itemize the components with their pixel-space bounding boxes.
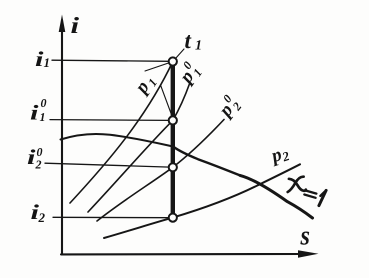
glyph = bar 1 [305, 190, 316, 193]
y axis arrowhead [59, 15, 66, 33]
glyph = bar 2 [304, 195, 315, 198]
svg-text:1: 1 [195, 39, 202, 54]
label i1 [35, 47, 44, 71]
label s (axis) [299, 220, 310, 251]
label i2-0 [27, 145, 36, 169]
svg-text:i: i [35, 47, 44, 71]
x axis arrowhead [298, 250, 319, 258]
glyph x stroke 2 [288, 177, 304, 192]
isobar p1 [70, 62, 173, 204]
glyph 1 stem [319, 190, 326, 205]
svg-text:1: 1 [40, 110, 46, 124]
saturation curve x=1 middle part [173, 147, 240, 176]
leader line t1 to point 1 [145, 49, 184, 71]
node 2 [169, 116, 177, 124]
svg-text:0: 0 [41, 96, 47, 110]
label x=1 drawn as strokes [288, 177, 326, 206]
node 1 [169, 57, 177, 65]
node 4 [169, 214, 177, 222]
label p2 [267, 142, 292, 168]
leader line near p1 to point 2 [161, 85, 173, 116]
saturation curve x=1 right thick part [240, 175, 313, 218]
x axis [61, 253, 302, 255]
saturation curve x=1 left part [61, 134, 174, 147]
isobar p2-0 [97, 120, 224, 222]
guide line i1 [52, 60, 170, 61]
y axis [61, 20, 63, 254]
isobar p1-0 [88, 83, 190, 212]
glyph 1 flag [320, 190, 326, 196]
svg-text:2: 2 [38, 210, 46, 225]
glyph x stroke 1 [289, 179, 306, 191]
isobar p2 [104, 164, 300, 238]
svg-text:i: i [71, 12, 81, 38]
isentrope thick vertical line [171, 62, 175, 218]
label i1-0 [30, 101, 39, 125]
node 3 [169, 163, 177, 171]
svg-text:t: t [185, 28, 192, 53]
svg-text:1: 1 [44, 55, 51, 70]
label p1-0 [172, 59, 205, 90]
label i (axis) [71, 12, 81, 38]
label i2 [31, 200, 40, 224]
label p2-0 [212, 92, 245, 124]
guide line i2 [53, 216, 170, 218]
guide line i2-0 [45, 163, 170, 167]
guide line i1-0 [50, 119, 170, 122]
label p1 [130, 71, 160, 100]
svg-text:2: 2 [35, 158, 42, 172]
svg-text:i: i [27, 145, 36, 169]
svg-text:s: s [299, 220, 310, 251]
svg-text:i: i [30, 101, 39, 125]
